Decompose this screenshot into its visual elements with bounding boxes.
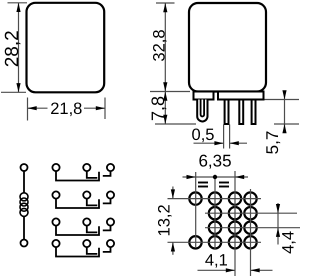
svg-text:4,1: 4,1 xyxy=(205,252,228,270)
svg-text:6,35: 6,35 xyxy=(198,152,231,171)
svg-text:32,8: 32,8 xyxy=(150,29,168,61)
svg-text:13,2: 13,2 xyxy=(156,204,174,236)
svg-text:21,8: 21,8 xyxy=(50,100,82,118)
svg-text:28,2: 28,2 xyxy=(2,30,23,67)
svg-text:4,4: 4,4 xyxy=(279,231,297,254)
svg-text:0,5: 0,5 xyxy=(192,126,215,144)
svg-text:7,8: 7,8 xyxy=(148,96,168,121)
svg-text:5,7: 5,7 xyxy=(263,131,282,155)
